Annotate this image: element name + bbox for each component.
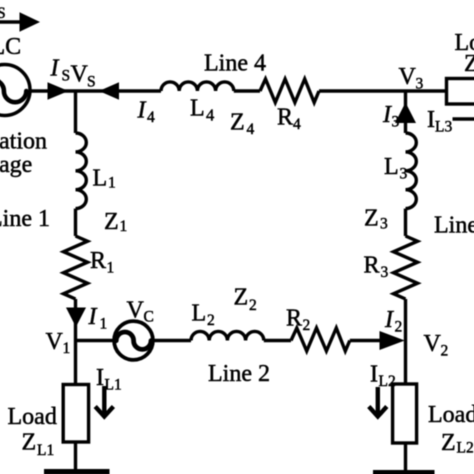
svg-text:L2: L2 [379, 373, 396, 390]
svg-text:age: age [0, 152, 32, 178]
svg-text:Z: Z [234, 285, 249, 311]
svg-text:S: S [87, 74, 96, 91]
svg-text:LC: LC [0, 34, 21, 60]
svg-text:Z: Z [441, 430, 456, 456]
svg-text:Z: Z [464, 51, 474, 77]
svg-text:2: 2 [249, 297, 257, 314]
svg-text:V: V [399, 64, 417, 90]
svg-text:3: 3 [400, 166, 408, 183]
svg-text:R: R [364, 253, 380, 279]
svg-text:I: I [382, 102, 392, 128]
svg-text:I: I [427, 107, 435, 133]
svg-text:2: 2 [207, 312, 215, 329]
svg-text:L2: L2 [457, 440, 474, 457]
svg-text:C: C [144, 309, 154, 326]
svg-text:R: R [277, 105, 293, 131]
svg-text:L: L [384, 154, 399, 180]
svg-text:L: L [93, 166, 108, 192]
svg-text:I: I [88, 304, 98, 330]
svg-text:Line 2: Line 2 [208, 361, 270, 387]
svg-text:Line 1: Line 1 [0, 206, 50, 232]
svg-text:Line 3: Line 3 [434, 213, 474, 239]
svg-text:R: R [90, 248, 106, 274]
svg-text:S: S [62, 68, 71, 85]
svg-text:V: V [127, 298, 145, 324]
svg-text:1: 1 [107, 260, 115, 277]
svg-text:Z: Z [364, 206, 379, 232]
svg-text:Z: Z [104, 209, 119, 235]
svg-text:R: R [286, 306, 302, 332]
svg-text:2: 2 [303, 317, 311, 334]
svg-text:I: I [384, 307, 394, 333]
svg-text:Line 4: Line 4 [204, 51, 266, 77]
svg-text:I: I [96, 365, 104, 391]
svg-text:L: L [192, 301, 207, 327]
svg-text:L: L [190, 96, 205, 122]
svg-text:I: I [137, 98, 147, 124]
svg-text:3: 3 [381, 264, 389, 281]
svg-text:4: 4 [147, 109, 155, 126]
svg-text:I: I [370, 362, 378, 388]
svg-text:1: 1 [120, 218, 128, 235]
svg-text:V: V [424, 331, 442, 357]
svg-text:4: 4 [206, 106, 214, 125]
svg-text:1: 1 [100, 316, 108, 333]
svg-text:Load: Load [428, 402, 474, 428]
svg-text:V: V [71, 62, 89, 88]
svg-text:Load: Load [8, 404, 57, 430]
svg-text:3: 3 [416, 76, 424, 93]
svg-text:2: 2 [441, 343, 449, 360]
svg-text:L1: L1 [105, 377, 122, 394]
svg-text:ation: ation [0, 129, 47, 155]
svg-text:V: V [46, 329, 64, 355]
svg-text:Z: Z [22, 430, 37, 456]
svg-text:S: S [0, 5, 6, 22]
svg-text:1: 1 [63, 340, 71, 357]
svg-text:3: 3 [380, 216, 388, 233]
svg-text:4: 4 [247, 121, 255, 138]
svg-text:L1: L1 [37, 442, 54, 459]
svg-text:2: 2 [395, 319, 403, 336]
svg-text:3: 3 [392, 114, 400, 131]
svg-text:4: 4 [293, 116, 301, 133]
svg-text:1: 1 [108, 175, 116, 192]
svg-text:L3: L3 [435, 119, 452, 136]
svg-text:I: I [50, 56, 60, 82]
svg-text:Z: Z [230, 110, 245, 136]
